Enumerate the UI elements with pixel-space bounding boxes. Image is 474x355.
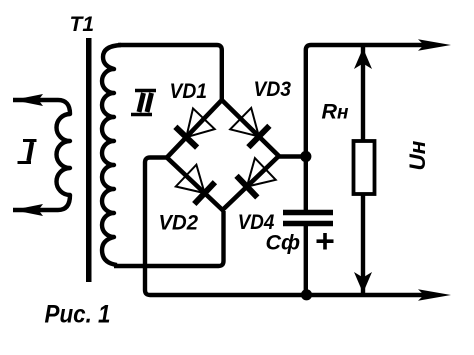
- diode VD1 triangle: [186, 108, 214, 137]
- wire capacitor to bottom rail: [304, 226, 308, 295]
- capacitor plus polarity mark: [317, 233, 334, 250]
- bridge diamond wires: [167, 100, 279, 210]
- wire load branch vertical: [361, 47, 365, 293]
- transformer T1 secondary winding: [102, 45, 121, 265]
- resistor Rn box: [354, 141, 375, 194]
- svg-text:VD2: VD2: [159, 211, 199, 235]
- junction node at bridge output: [300, 151, 311, 162]
- capacitor C plate bottom: [283, 221, 333, 227]
- wire secondary top to bridge: [118, 45, 222, 101]
- diode VD4 cathode bar: [237, 176, 258, 198]
- label II secondary winding: [131, 91, 156, 115]
- wire junction down to capacitor: [304, 156, 308, 210]
- svg-text:Uн: Uн: [405, 140, 430, 170]
- svg-text:Rн: Rн: [322, 100, 350, 124]
- voltage arrow up: [354, 48, 372, 69]
- arrow top output: [418, 39, 451, 51]
- diode VD3 triangle: [230, 108, 259, 137]
- wire secondary bottom to bridge: [114, 211, 224, 266]
- diode VD4 triangle: [247, 158, 276, 187]
- arrow on primary top lead: [13, 94, 43, 106]
- wire bridge left vertex to bottom rail: [145, 158, 424, 296]
- svg-text:Сф: Сф: [266, 231, 301, 255]
- diode VD2 triangle: [176, 165, 205, 193]
- transformer T1 primary winding: [13, 100, 70, 210]
- svg-text:Рис. 1: Рис. 1: [45, 301, 111, 329]
- diode VD2 cathode bar: [194, 182, 215, 204]
- capacitor C plate top: [283, 210, 333, 216]
- wire bridge right vertex to junction: [277, 154, 306, 159]
- transformer T1 core: [86, 38, 92, 282]
- svg-text:VD3: VD3: [254, 77, 292, 101]
- arrow bottom output: [418, 289, 451, 301]
- diode VD3 cathode bar: [248, 126, 269, 147]
- wire junction to top output: [306, 45, 424, 158]
- junction node at bottom rail: [301, 289, 312, 300]
- label I primary winding: [18, 141, 37, 163]
- svg-text:VD1: VD1: [170, 79, 208, 103]
- diode VD1 cathode bar: [175, 127, 197, 148]
- svg-text:T1: T1: [70, 13, 95, 36]
- voltage arrow down: [354, 272, 372, 293]
- arrow on primary bottom lead: [13, 204, 43, 216]
